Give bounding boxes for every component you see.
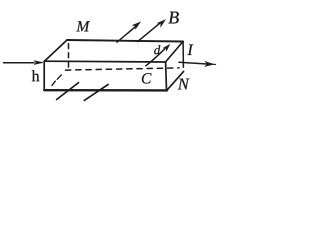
left input arrow head [34, 61, 43, 65]
label N [178, 79, 190, 90]
box front-bottom edge [44, 89, 167, 92]
B field arrow B shaft [138, 23, 161, 42]
current I arrow shaft [179, 62, 207, 64]
B field arrow B head [158, 20, 166, 27]
box front-top edge [44, 60, 165, 63]
label h [32, 70, 40, 81]
label I [187, 45, 193, 55]
B field arrow through right face head [163, 45, 170, 52]
B field hidden dash a inside front face [52, 81, 55, 85]
current I arrow tip overshoot mark [211, 63, 216, 65]
label d [154, 45, 160, 54]
box top-right diagonal edge [166, 42, 184, 63]
B field arrow through right face shaft [146, 49, 165, 66]
B field line lower slash 1 [57, 83, 79, 100]
box back-right vertical edge [182, 42, 184, 68]
box hidden back-bottom edge dashed [66, 68, 180, 70]
box hidden back-left vertical edge dashed [68, 44, 70, 70]
label B [168, 12, 178, 24]
box back-top edge [67, 40, 183, 42]
B field arrow A shaft [117, 27, 136, 43]
current I arrow head [205, 62, 213, 67]
physics diagram: conducting slab (Hall effect figure) with field B, current I, labels M C N d h [0, 0, 221, 108]
B field arrow A head [132, 22, 140, 29]
left input arrow shaft [4, 62, 35, 64]
label M [76, 21, 90, 31]
box front-left vertical edge [43, 61, 45, 90]
box bottom-right diagonal edge [167, 71, 184, 90]
B field line lower slash 2 [84, 85, 108, 101]
B field hidden dash b inside front face [57, 75, 61, 79]
label C [142, 73, 152, 83]
box top-left diagonal edge [44, 40, 67, 61]
box front-right vertical edge [165, 62, 168, 90]
